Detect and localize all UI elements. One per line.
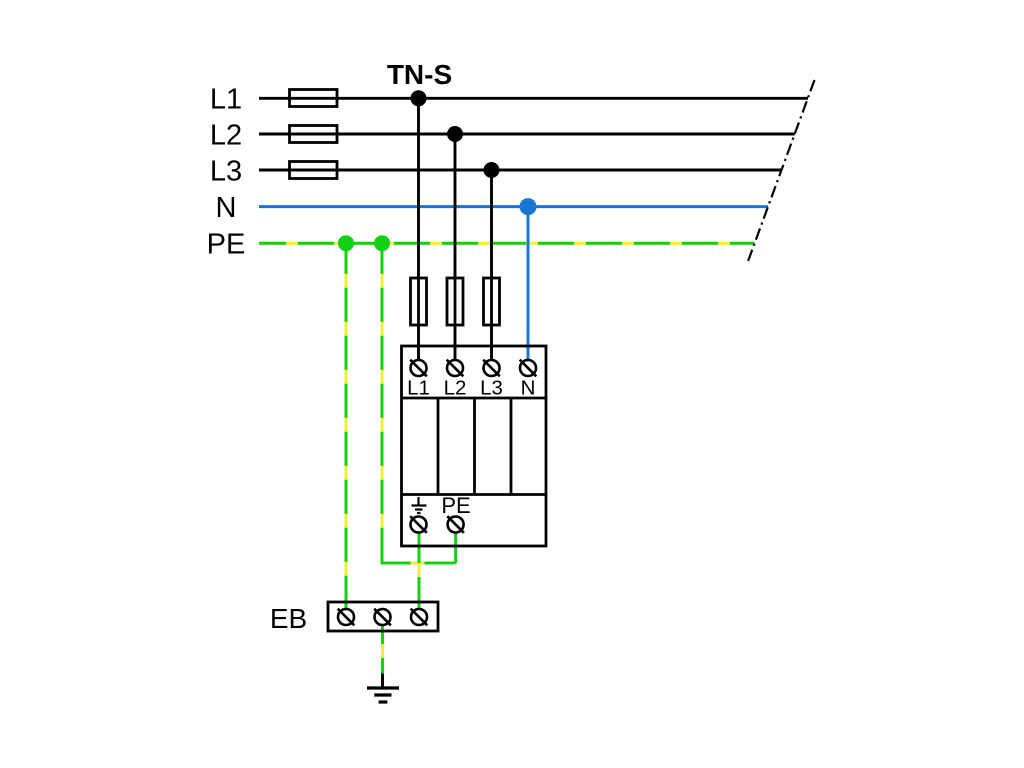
wire PE bus (green/yellow) (259, 242, 755, 245)
svg-text:L2: L2 (444, 377, 467, 400)
wire PE drop 2 (381, 243, 384, 563)
wire L2 drop (454, 134, 457, 360)
wire SPD earth terminal to EB (418, 533, 421, 610)
svg-text:L3: L3 (480, 377, 503, 400)
svg-text:PE: PE (441, 493, 470, 518)
terminal L1 (screw) (410, 360, 427, 377)
wire PE drop 1 (to EB) (345, 243, 348, 609)
terminal earth (screw) (410, 516, 427, 533)
wire N drop (blue) (527, 207, 530, 360)
node L3 junction (484, 162, 500, 178)
wire L3 drop (490, 170, 493, 360)
wire L1 bus (259, 97, 808, 100)
EB terminal 2 (screw) (374, 609, 391, 626)
fuse F3 (290, 162, 338, 179)
ground (367, 674, 399, 703)
SPD U1 bottom row divider (402, 493, 547, 496)
SPD U1 module divider 1 (437, 398, 440, 495)
EB busbar outline (328, 602, 438, 631)
wire EB to earth electrode (381, 625, 384, 674)
wire SPD PE terminal drop (454, 533, 457, 564)
svg-text:EB: EB (270, 603, 307, 634)
svg-text:PE: PE (207, 229, 246, 261)
fuse F2 (290, 126, 338, 143)
svg-text:L3: L3 (210, 156, 242, 188)
wire L1 drop (417, 98, 420, 360)
fuse F6 (vertical, L3 branch) (484, 278, 500, 325)
SPD U1 module divider 3 (510, 398, 513, 495)
node PE junction 2 (green) (374, 235, 390, 251)
terminal L3 (screw) (483, 360, 500, 377)
node PE junction 1 (green) (338, 235, 354, 251)
node N junction (blue) (520, 198, 537, 215)
wire L2 bus (259, 133, 795, 136)
svg-text:TN-S: TN-S (387, 59, 452, 90)
wire N bus (259, 205, 768, 208)
EB terminal 1 (screw) (338, 609, 355, 626)
fuse F4 (vertical, L1 branch) (411, 278, 427, 325)
boundary dash-dot line (747, 80, 815, 264)
node L1 junction (411, 90, 427, 106)
fuse F1 (290, 90, 338, 107)
SPD U1 outline (402, 346, 547, 546)
earth mark on SPD (412, 497, 427, 513)
svg-text:N: N (216, 192, 237, 224)
svg-text:L2: L2 (210, 120, 242, 152)
terminal L2 (screw) (447, 360, 464, 377)
svg-text:N: N (521, 377, 536, 400)
terminal N (screw) (520, 360, 537, 377)
wire L3 bus (259, 169, 782, 172)
wire PE horizontal run (381, 562, 456, 565)
SPD U1 module divider 2 (473, 398, 476, 495)
svg-text:L1: L1 (407, 377, 430, 400)
SPD U1 terminal row divider (402, 397, 547, 400)
node L2 junction (447, 126, 463, 142)
EB terminal 3 (screw) (411, 609, 428, 626)
terminal PE (screw) (447, 516, 464, 533)
svg-text:L1: L1 (210, 84, 242, 116)
fuse F5 (vertical, L2 branch) (447, 278, 463, 325)
